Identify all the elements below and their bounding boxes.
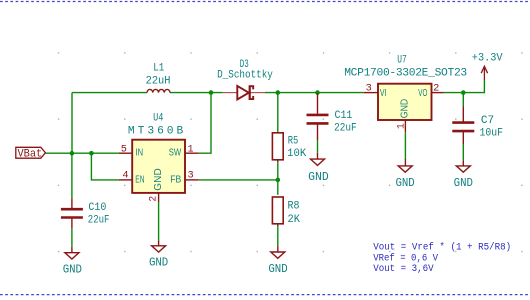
svg-text:22uF: 22uF	[88, 215, 110, 227]
svg-text:2K: 2K	[288, 214, 301, 226]
svg-text:GND: GND	[395, 177, 414, 190]
svg-text:GND: GND	[308, 171, 329, 184]
svg-text:GND: GND	[400, 99, 411, 118]
svg-text:EN: EN	[135, 174, 144, 185]
svg-text:GND: GND	[153, 168, 164, 191]
svg-text:GND: GND	[268, 263, 287, 276]
svg-text:D_Schottky: D_Schottky	[217, 69, 273, 81]
svg-text:U4: U4	[153, 112, 163, 124]
svg-text:VBat: VBat	[18, 148, 43, 160]
svg-text:L1: L1	[153, 63, 164, 75]
svg-text:R8: R8	[288, 200, 300, 212]
svg-text:2: 2	[433, 82, 439, 93]
svg-text:4: 4	[122, 170, 128, 181]
svg-text:SW: SW	[169, 147, 182, 158]
svg-text:GND: GND	[454, 177, 473, 190]
svg-text:5: 5	[121, 143, 127, 154]
svg-text:3: 3	[366, 82, 372, 93]
svg-text:Vout = 3,6V: Vout = 3,6V	[373, 264, 434, 275]
svg-text:1: 1	[188, 143, 194, 154]
svg-text:VRef = 0,6 V: VRef = 0,6 V	[373, 252, 438, 264]
svg-text:+3.3V: +3.3V	[472, 53, 503, 65]
svg-text:2: 2	[148, 196, 159, 202]
svg-text:MCP1700-3302E_SOT23: MCP1700-3302E_SOT23	[344, 68, 467, 80]
svg-text:GND: GND	[149, 257, 168, 270]
svg-text:GND: GND	[63, 263, 82, 276]
svg-text:C11: C11	[335, 110, 353, 122]
svg-text:10K: 10K	[287, 148, 306, 160]
svg-text:FB: FB	[170, 174, 181, 185]
svg-text:VI: VI	[380, 88, 387, 99]
svg-text:3: 3	[188, 170, 194, 181]
svg-text:C7: C7	[481, 115, 494, 127]
svg-text:VO: VO	[418, 88, 427, 99]
svg-text:Vout = Vref * (1 + R5/R8): Vout = Vref * (1 + R5/R8)	[373, 241, 511, 253]
svg-text:C10: C10	[88, 202, 106, 214]
svg-text:22uH: 22uH	[146, 76, 171, 88]
svg-text:22uF: 22uF	[334, 122, 357, 134]
svg-text:R5: R5	[288, 136, 299, 148]
svg-text:10uF: 10uF	[480, 127, 504, 139]
svg-text:1: 1	[396, 123, 407, 129]
svg-text:U7: U7	[397, 54, 407, 66]
svg-text:IN: IN	[136, 147, 144, 158]
